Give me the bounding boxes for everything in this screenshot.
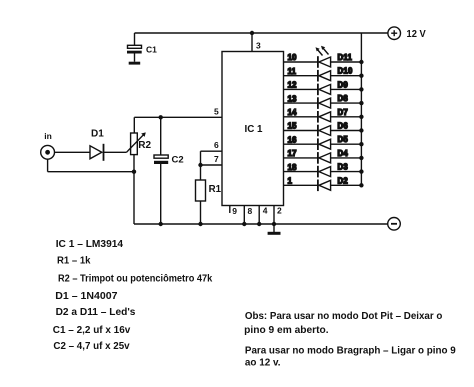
svg-text:D10: D10 xyxy=(338,67,353,76)
svg-text:7: 7 xyxy=(214,154,219,164)
svg-text:R1: R1 xyxy=(209,184,222,195)
svg-text:17: 17 xyxy=(288,149,297,158)
svg-text:2: 2 xyxy=(277,206,282,216)
svg-text:5: 5 xyxy=(214,107,219,117)
svg-text:6: 6 xyxy=(214,140,219,150)
svg-text:D1: D1 xyxy=(91,129,104,140)
svg-text:R2 – Trimpot ou potenciômetro: R2 – Trimpot ou potenciômetro 47k xyxy=(58,273,212,285)
svg-text:11: 11 xyxy=(288,67,297,76)
svg-text:R2: R2 xyxy=(138,140,151,151)
svg-text:D5: D5 xyxy=(338,135,349,144)
svg-text:16: 16 xyxy=(288,135,297,144)
svg-text:1: 1 xyxy=(288,177,293,186)
svg-text:pino 9 em aberto.: pino 9 em aberto. xyxy=(244,325,329,336)
svg-text:13: 13 xyxy=(288,94,297,103)
svg-text:IC 1: IC 1 xyxy=(245,124,264,135)
svg-text:D2: D2 xyxy=(338,176,349,185)
svg-text:D8: D8 xyxy=(338,94,349,103)
svg-text:C1 – 2,2 uf x 16v: C1 – 2,2 uf x 16v xyxy=(53,324,131,336)
svg-text:18: 18 xyxy=(288,163,297,172)
svg-text:14: 14 xyxy=(288,108,297,117)
svg-text:Obs: Para usar no modo Dot Pit: Obs: Para usar no modo Dot Pit – Deixar … xyxy=(245,311,443,322)
svg-text:15: 15 xyxy=(288,122,297,131)
svg-text:12 V: 12 V xyxy=(407,28,426,40)
svg-text:D9: D9 xyxy=(338,80,349,89)
svg-text:10: 10 xyxy=(288,53,297,62)
svg-text:ao 12 v.: ao 12 v. xyxy=(245,357,281,368)
svg-text:C2: C2 xyxy=(172,154,184,165)
svg-text:3: 3 xyxy=(256,41,261,51)
svg-text:D7: D7 xyxy=(338,108,348,117)
svg-text:D11: D11 xyxy=(338,53,353,62)
svg-text:12: 12 xyxy=(288,81,297,90)
svg-text:D4: D4 xyxy=(338,149,349,158)
svg-text:4: 4 xyxy=(263,206,268,216)
svg-text:in: in xyxy=(44,131,52,141)
svg-text:C2 – 4,7 uf x 25v: C2 – 4,7 uf x 25v xyxy=(53,340,129,352)
svg-text:C1: C1 xyxy=(146,44,157,54)
svg-text:IC 1 – LM3914: IC 1 – LM3914 xyxy=(56,238,124,250)
svg-text:D3: D3 xyxy=(338,163,349,172)
svg-text:R1 – 1k: R1 – 1k xyxy=(57,255,91,267)
svg-text:9: 9 xyxy=(232,206,237,216)
svg-text:8: 8 xyxy=(248,206,253,216)
svg-text:D2 a D11 – Led's: D2 a D11 – Led's xyxy=(56,306,136,318)
svg-text:Para usar no modo Bragraph – L: Para usar no modo Bragraph – Ligar o pin… xyxy=(245,345,456,356)
svg-text:D6: D6 xyxy=(338,122,349,131)
svg-text:D1 – 1N4007: D1 – 1N4007 xyxy=(55,290,117,302)
